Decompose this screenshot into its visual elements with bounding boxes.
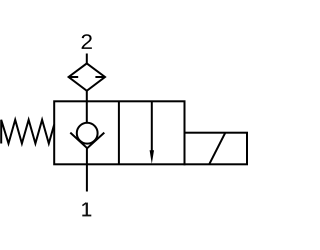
flow path arrowhead [150,150,154,164]
filter dashed line right dash [95,76,104,78]
flow path arrow shaft [151,101,153,152]
check valve ball [77,123,98,144]
solenoid diagonal [209,133,225,165]
wire filter to valve body [86,91,88,102]
port label 1 [82,203,91,216]
wire port 2 stub [86,54,88,64]
wire check valve to port 1 [86,148,88,191]
position divider [118,101,120,164]
check valve seat [70,133,104,149]
filter F1 diamond [69,63,105,90]
solenoid box [185,133,248,165]
valve body outline [54,101,184,164]
port label 2 [82,34,92,49]
spring [1,120,54,144]
wire into check valve [86,101,88,123]
filter dashed line left dash [69,76,78,78]
